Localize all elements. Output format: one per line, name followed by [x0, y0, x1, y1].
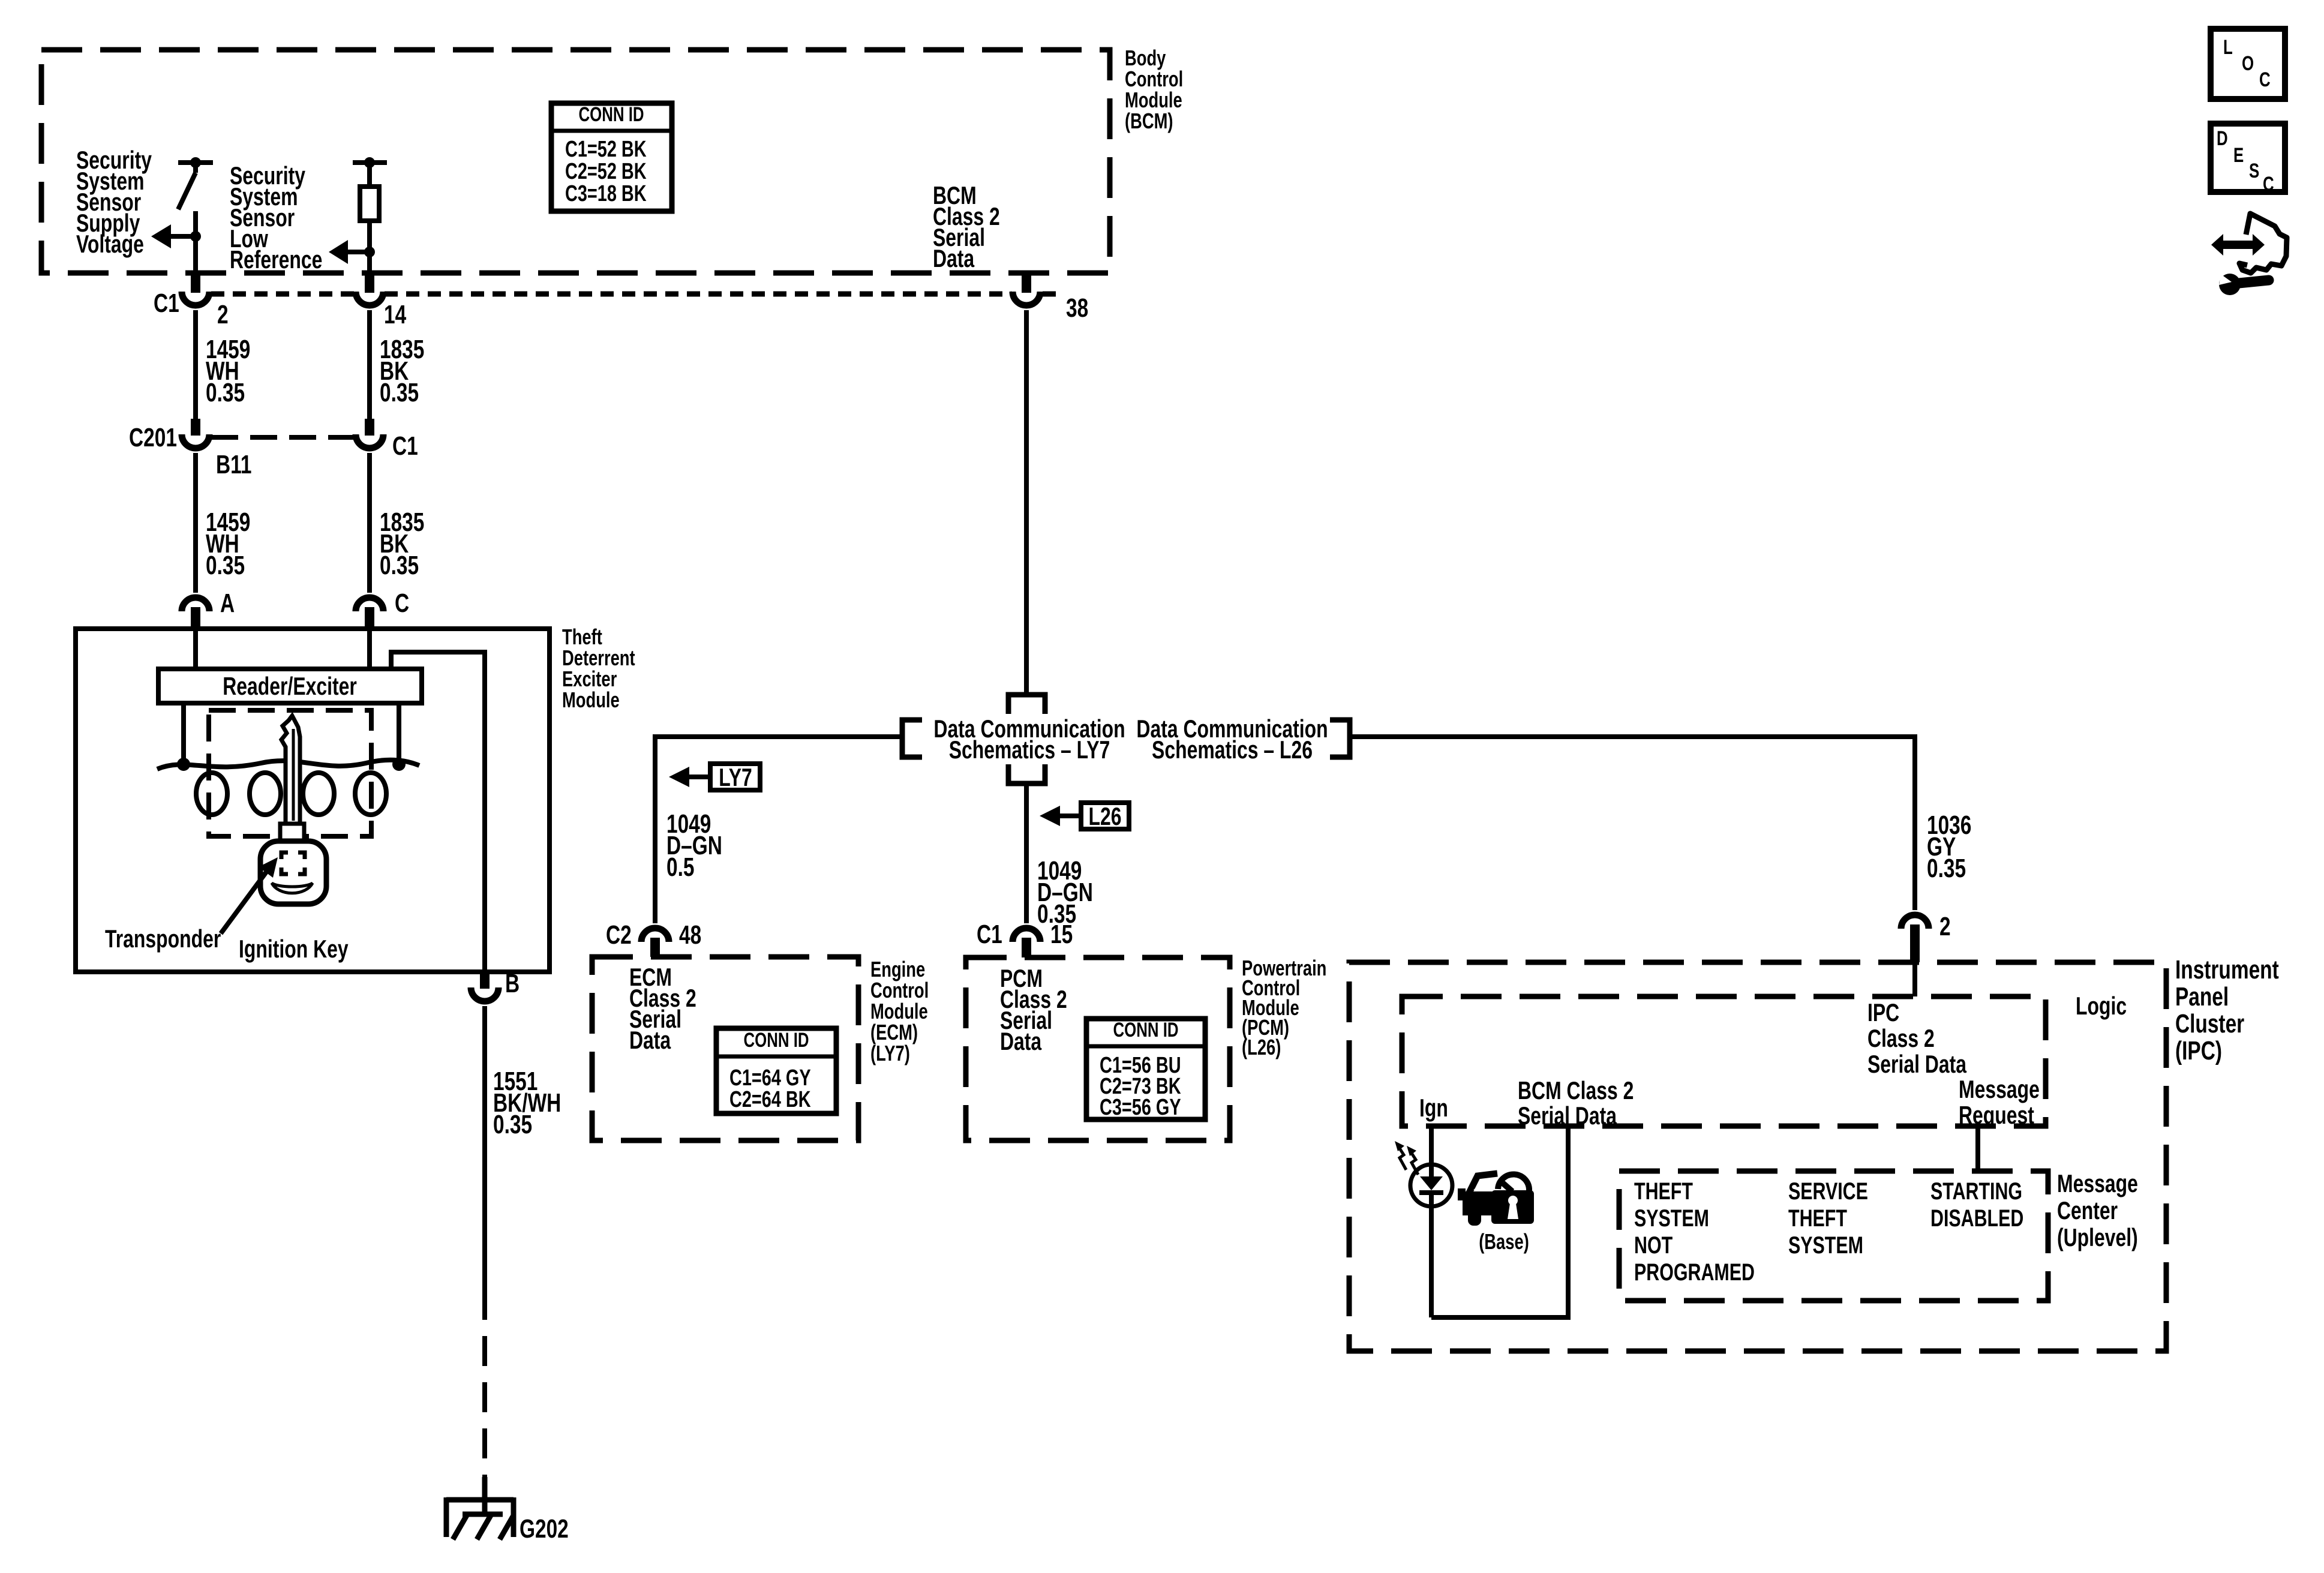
wire to IPC branch [1350, 737, 1915, 910]
svg-text:Data CommunicationSchematics –: Data CommunicationSchematics – LY7 [933, 715, 1125, 764]
svg-text:STARTINGDISABLED: STARTINGDISABLED [1930, 1178, 2023, 1232]
pin 48 connector (ECM C2) [641, 928, 669, 957]
coil dashed box [209, 710, 371, 836]
pin B connector (exciter module) [471, 972, 499, 1001]
ground G202 [446, 1477, 514, 1539]
CONN ID table (ECM) [716, 1028, 836, 1113]
L26 reference box [1040, 802, 1129, 830]
pin A connector (exciter module) [182, 598, 209, 629]
svg-text:C1=52 BKC2=52 BKC3=18 BK: C1=52 BKC2=52 BKC3=18 BK [565, 136, 647, 206]
svg-text:D: D [2217, 128, 2228, 150]
CONN ID table (PCM) [1086, 1019, 1205, 1120]
svg-text:2: 2 [217, 301, 229, 329]
key head smile slot [272, 883, 313, 893]
ignition key blade [281, 716, 300, 824]
Instrument Panel Cluster dashed box [1349, 962, 2166, 1351]
PCM dashed box [966, 957, 1230, 1140]
LY7 reference box [669, 763, 760, 791]
wire 1459 WH (upper) [193, 310, 198, 419]
bottom staple bracket [1008, 764, 1045, 784]
svg-text:Data CommunicationSchematics –: Data CommunicationSchematics – L26 [1136, 715, 1328, 764]
svg-text:Ign: Ign [1419, 1094, 1448, 1122]
pin 15 connector (PCM C1) [1013, 928, 1040, 957]
svg-text:Logic: Logic [2076, 992, 2127, 1020]
svg-text:LY7: LY7 [719, 763, 752, 791]
Reader/Exciter box [158, 669, 422, 703]
pin 38 connector (BCM C2) [1013, 273, 1040, 305]
svg-text:G202: G202 [520, 1515, 569, 1544]
coil loop 2 [250, 773, 281, 815]
svg-text:E: E [2233, 145, 2244, 167]
svg-text:Transponder: Transponder [105, 924, 221, 953]
switch: Security System Sensor Supply Voltage [178, 157, 213, 273]
wire 1835 BK (lower) [367, 453, 372, 593]
wire 1551 dashed section [482, 1290, 487, 1488]
resistor: Security System Sensor Low Reference [353, 157, 387, 273]
svg-text:MessageRequest: MessageRequest [1959, 1075, 2040, 1129]
coil leg left [181, 703, 186, 764]
svg-text:B11: B11 [216, 451, 251, 479]
svg-text:O: O [2242, 53, 2254, 75]
svg-text:A: A [220, 589, 235, 618]
connector C201 pin C1 [356, 419, 383, 448]
svg-text:C1=64 GYC2=64 BK: C1=64 GYC2=64 BK [729, 1065, 811, 1112]
svg-text:C2: C2 [606, 921, 632, 950]
svg-text:Ignition Key: Ignition Key [239, 935, 349, 963]
wire A to Reader/Exciter [193, 629, 198, 669]
wire 1551 BK/WH [482, 1006, 487, 1290]
svg-text:15: 15 [1050, 920, 1073, 949]
wire to LY7 branch [655, 737, 902, 923]
connector C201 pin B11 [182, 419, 209, 448]
wire Reader/Exciter to pin B [391, 652, 485, 972]
svg-text:48: 48 [679, 921, 701, 950]
LED indicator [1410, 1164, 1452, 1317]
svg-text:C: C [395, 589, 409, 618]
svg-text:CONN ID: CONN ID [578, 104, 644, 126]
wire 1459 WH (lower) [193, 453, 198, 593]
junction node left [177, 758, 190, 771]
svg-text:14: 14 [384, 301, 406, 329]
arrow Security System Sensor Supply Voltage [151, 224, 196, 248]
Logic dashed box [1402, 996, 2046, 1126]
ECM dashed box [592, 957, 858, 1140]
C201 connector dashed line [211, 435, 354, 440]
junction node right [392, 758, 406, 771]
coil loop 3 [303, 773, 334, 815]
wire pin38 to PCM [1024, 784, 1029, 923]
service icon: car with double arrow and wrench [2211, 214, 2287, 295]
connector face C1 fine-dash line [211, 292, 355, 297]
wire 1835 BK (upper) [367, 310, 372, 419]
svg-text:C: C [2259, 69, 2271, 91]
svg-text:C201: C201 [129, 424, 177, 452]
svg-text:B: B [505, 969, 520, 998]
top staple bracket [1008, 695, 1045, 714]
ignition key head [260, 841, 326, 904]
left bracket [902, 720, 922, 757]
LOC box [2211, 29, 2285, 99]
svg-text:CONN ID: CONN ID [1113, 1019, 1178, 1041]
LED light arrows [1398, 1146, 1418, 1175]
pin 2 connector (IPC) [1901, 915, 1929, 962]
wire BCM pin38 down [1024, 310, 1029, 692]
right bracket [1330, 720, 1350, 757]
antenna wavy wire [157, 760, 419, 769]
transponder chip dashes [281, 852, 305, 874]
wire Ign to LED [1429, 1126, 1434, 1167]
svg-text:S: S [2249, 160, 2259, 182]
pin C connector (exciter module) [356, 598, 383, 629]
ignition key neck [280, 824, 304, 841]
svg-text:CONN ID: CONN ID [743, 1029, 809, 1052]
Body Control Module (BCM) dashed box [41, 50, 1110, 273]
svg-text:C1: C1 [154, 289, 179, 318]
pin 2 connector (BCM C1) [182, 273, 209, 305]
svg-text:L: L [2223, 37, 2233, 59]
coil leg right [397, 703, 401, 764]
wire Message Request [1975, 1126, 1980, 1171]
coil loop 1 [196, 773, 227, 815]
pin 14 connector (BCM C1) [356, 273, 383, 305]
Message Center dashed box [1619, 1171, 2048, 1301]
wire C to Reader/Exciter [367, 629, 372, 669]
transponder arrow [221, 857, 278, 933]
coil loop 4 [355, 773, 386, 815]
svg-text:C1=56 BUC2=73 BKC3=56 GY: C1=56 BUC2=73 BKC3=56 GY [1100, 1052, 1181, 1120]
svg-text:2: 2 [1939, 912, 1951, 941]
Base branch wire [1431, 1126, 1568, 1317]
wire IPC pin2 to Logic [1912, 962, 1917, 996]
Theft Deterrent Exciter Module box [76, 629, 550, 972]
CONN ID table (BCM) [551, 103, 672, 211]
DESC box [2211, 124, 2285, 196]
svg-text:C1: C1 [977, 920, 1002, 949]
svg-text:C1: C1 [392, 432, 418, 461]
svg-text:L26: L26 [1088, 802, 1121, 830]
car security icon (Base) [1458, 1173, 1534, 1226]
arrow Security System Sensor Low Reference [329, 240, 370, 264]
svg-text:Reader/Exciter: Reader/Exciter [223, 672, 357, 700]
svg-text:SecuritySystemSensorSupplyVolt: SecuritySystemSensorSupplyVoltage [76, 146, 152, 258]
svg-text:C: C [2263, 173, 2274, 196]
svg-text:(Base): (Base) [1479, 1229, 1529, 1254]
svg-text:38: 38 [1066, 294, 1088, 323]
svg-text:BCM Class 2Serial Data: BCM Class 2Serial Data [1518, 1076, 1634, 1130]
